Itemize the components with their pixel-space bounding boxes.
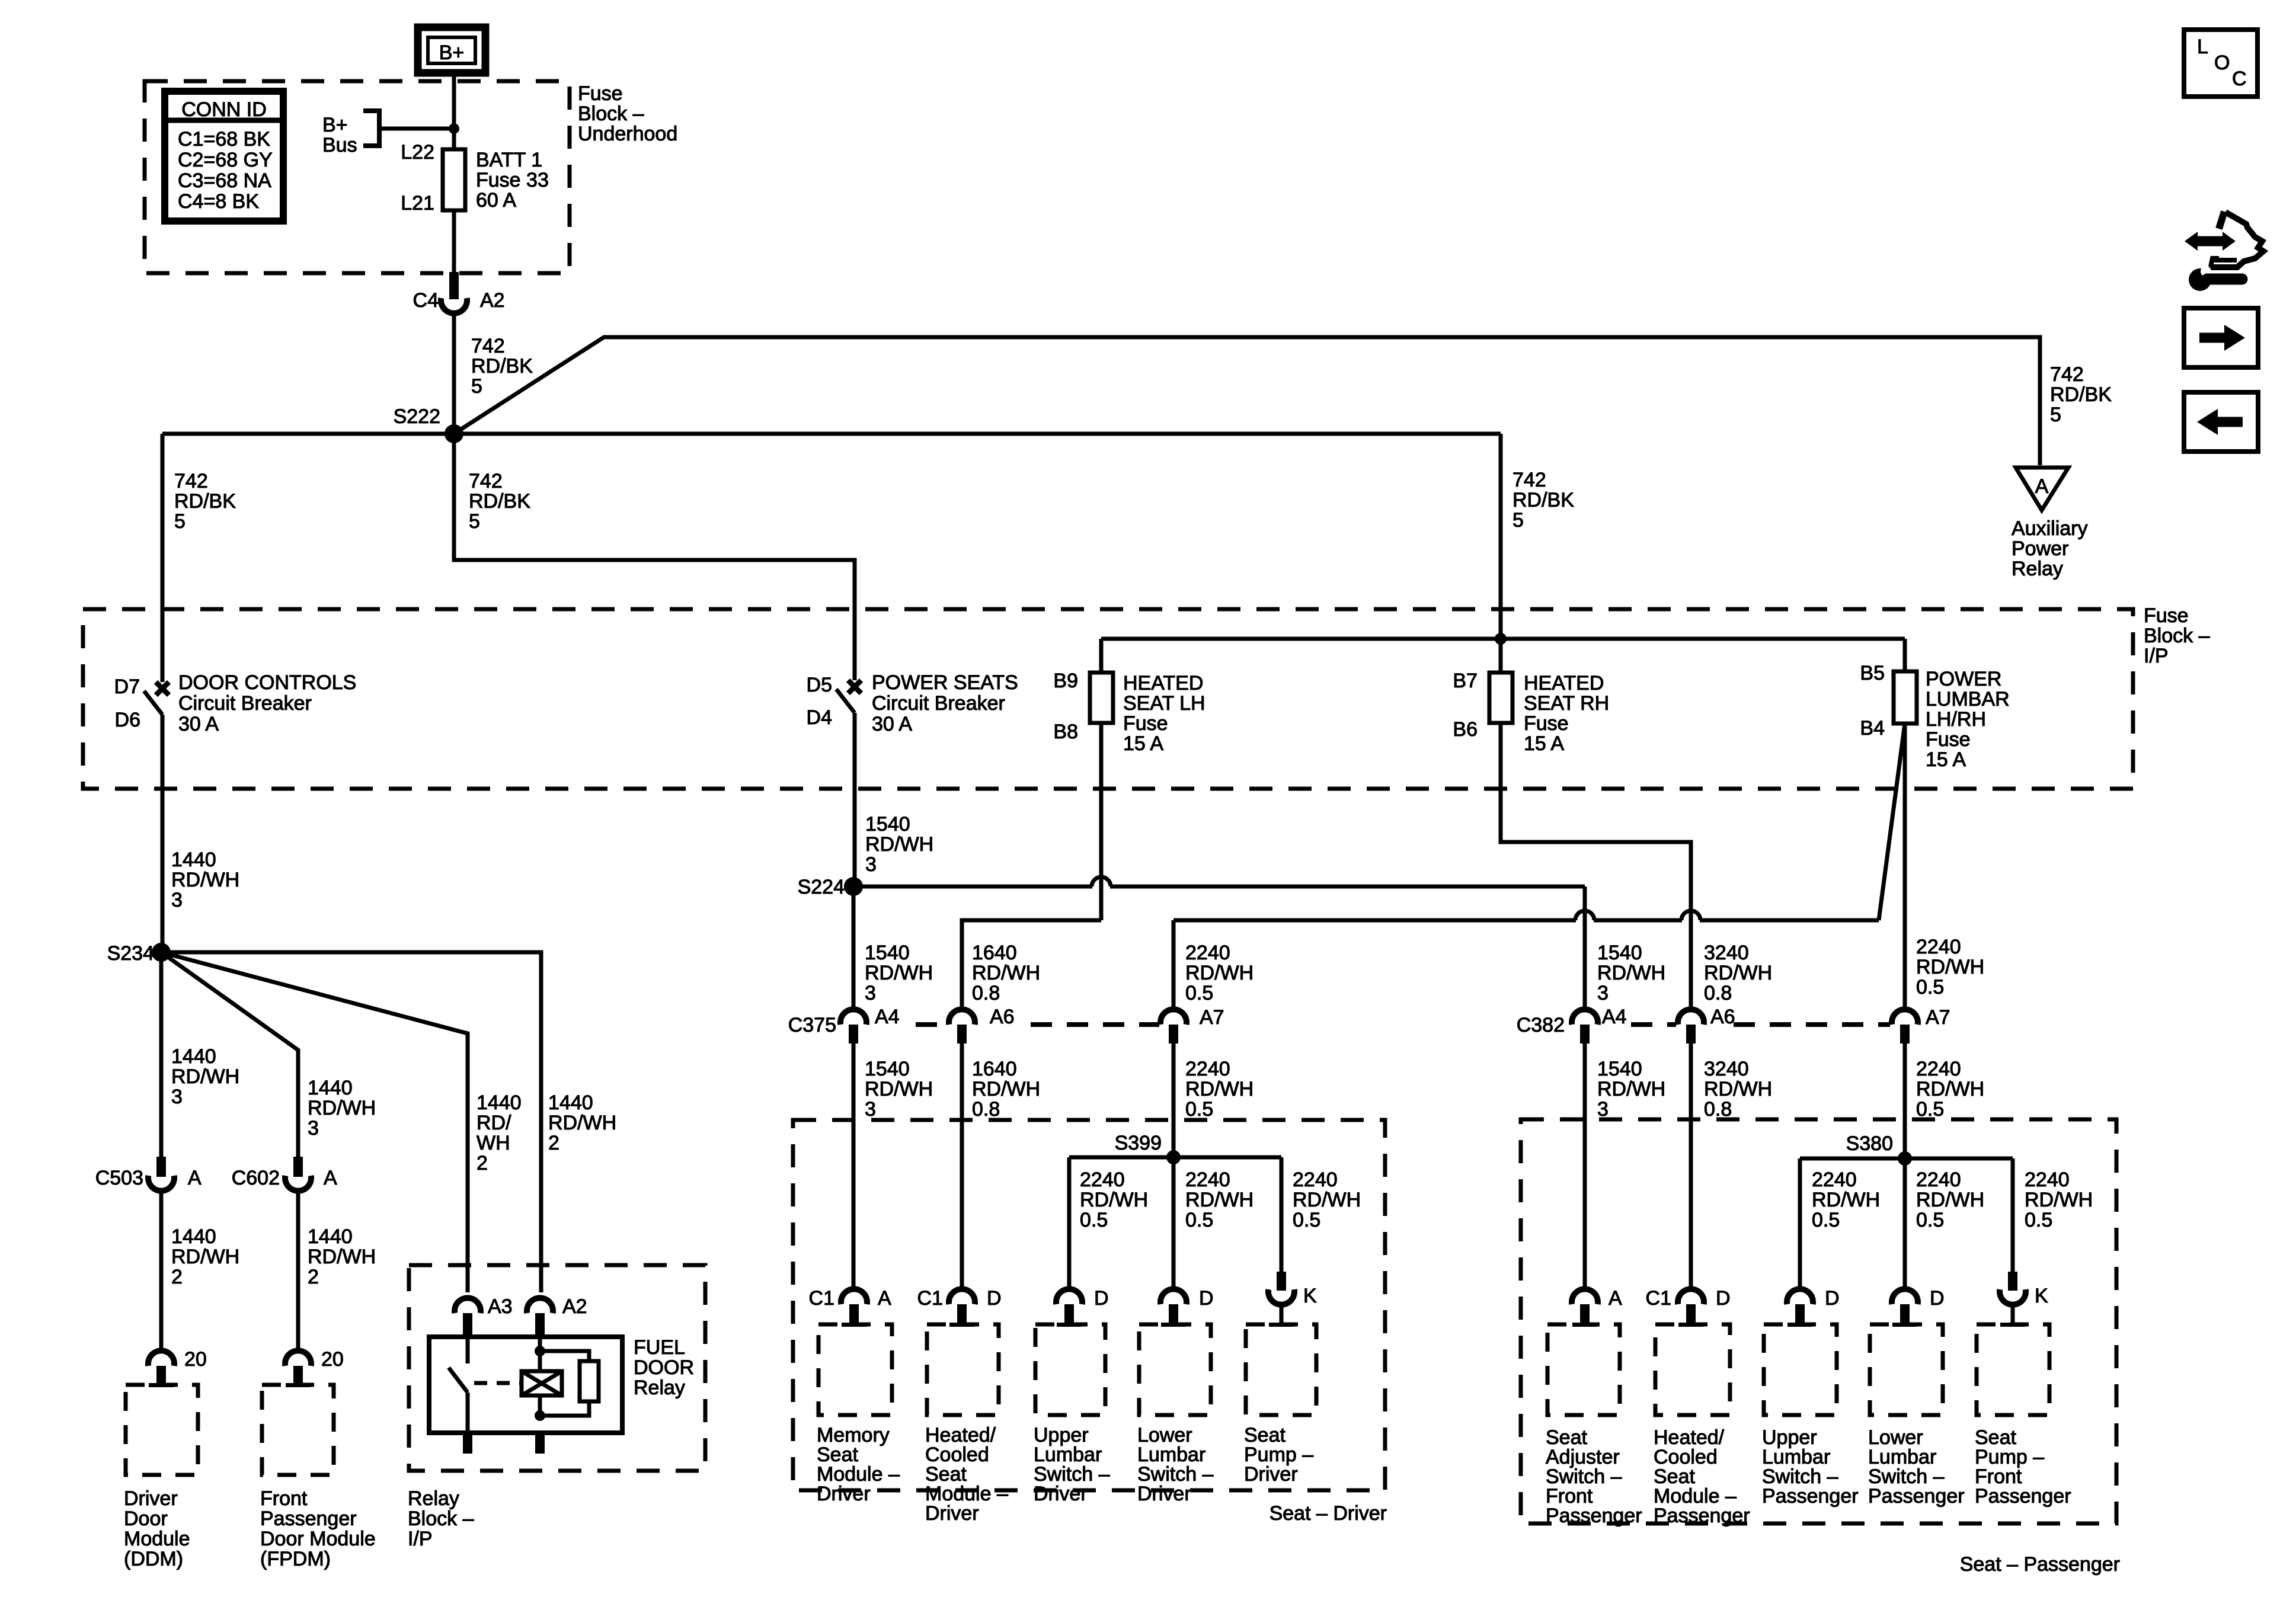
wire S380 horizontal — [1800, 1157, 2013, 1161]
svg-text:0.5: 0.5 — [1293, 1209, 1320, 1231]
svg-text:15 A: 15 A — [1123, 732, 1163, 755]
svg-text:1640: 1640 — [972, 942, 1017, 964]
svg-text:C: C — [2232, 68, 2247, 90]
IP internal bus wire — [1101, 637, 1905, 641]
svg-text:Passenger: Passenger — [1762, 1485, 1859, 1507]
connector C375 pin A7 — [1160, 1006, 1224, 1044]
svg-text:C1=68 BK: C1=68 BK — [178, 128, 270, 151]
svg-text:B5: B5 — [1860, 662, 1885, 684]
svg-text:RD/WH: RD/WH — [308, 1246, 376, 1268]
wire S234 to C602 — [161, 952, 298, 1158]
connector K seat pump passenger — [2000, 1272, 2048, 1326]
wire S234 to relay A3 — [161, 952, 468, 1292]
svg-text:B7: B7 — [1453, 670, 1478, 692]
svg-text:HEATED: HEATED — [1123, 672, 1203, 694]
svg-text:D: D — [987, 1287, 1002, 1310]
module seat pump passenger — [1975, 1323, 2071, 1507]
svg-text:L22: L22 — [401, 141, 434, 164]
svg-text:Driver: Driver — [1244, 1463, 1298, 1486]
svg-text:Passenger: Passenger — [1654, 1505, 1750, 1527]
svg-text:0.5: 0.5 — [1916, 1098, 1944, 1121]
svg-text:2240: 2240 — [1916, 1169, 1961, 1191]
wire S222 to auxiliary power relay — [454, 337, 2040, 465]
svg-text:20: 20 — [184, 1348, 207, 1371]
svg-text:RD/WH: RD/WH — [171, 1246, 239, 1268]
svg-text:2240: 2240 — [1185, 942, 1230, 964]
wire C375 A7 to S399 — [1172, 1044, 1176, 1157]
wire S399 to upper lumbar switch — [1067, 1157, 1072, 1292]
wire C602 to FPDM — [296, 1190, 300, 1353]
svg-text:Fuse: Fuse — [1926, 728, 1971, 751]
wire C375 A6 to heated seat module — [960, 1044, 964, 1292]
svg-text:D: D — [1094, 1287, 1109, 1310]
svg-text:3: 3 — [865, 982, 876, 1004]
svg-text:Block –: Block – — [2144, 625, 2210, 647]
svg-text:RD/WH: RD/WH — [1185, 1189, 1253, 1211]
svg-text:RD/BK: RD/BK — [1512, 489, 1574, 511]
svg-text:0.5: 0.5 — [1185, 982, 1213, 1004]
svg-text:1440: 1440 — [308, 1077, 353, 1099]
connector C375 pin A6 — [949, 1006, 1015, 1044]
connector C382 pin A4 — [1572, 1006, 1627, 1044]
wire label 2240 RD/WH 0.5 seat pump — [1293, 1169, 1361, 1231]
wire label 2240 RD/WH 0.5 upper passenger — [1916, 936, 1984, 998]
svg-text:D: D — [1825, 1287, 1840, 1310]
svg-text:15 A: 15 A — [1524, 732, 1564, 755]
wire S380 to upper lumbar passenger — [1798, 1158, 1802, 1292]
wire S399 horizontal — [1069, 1156, 1281, 1160]
connector C382 pin A6 — [1678, 1006, 1735, 1044]
module heated cooled seat passenger — [1654, 1323, 1750, 1527]
svg-text:3: 3 — [1597, 982, 1609, 1004]
wire S234 to C503 — [159, 952, 164, 1158]
relay actuator dashed link — [474, 1381, 520, 1385]
svg-text:RD/WH: RD/WH — [1812, 1189, 1880, 1211]
svg-text:2: 2 — [548, 1132, 559, 1154]
wire fuse to connector C4 — [452, 210, 456, 274]
wire label 2240 RD/WH 0.5 seat pump passenger — [2025, 1169, 2093, 1231]
svg-text:3: 3 — [865, 1098, 876, 1121]
relay block IP enclosure — [409, 1265, 705, 1471]
relay switch — [449, 1334, 468, 1393]
module upper lumbar switch passenger — [1762, 1323, 1859, 1507]
svg-text:K: K — [2035, 1285, 2048, 1307]
connector DDM pin 20 — [148, 1348, 207, 1385]
svg-text:C375: C375 — [788, 1014, 836, 1036]
svg-text:D7: D7 — [114, 676, 140, 698]
svg-text:30 A: 30 A — [178, 713, 219, 735]
wire C382 A7 to S380 — [1903, 1044, 1907, 1158]
wire S222 left branch to door controls breaker — [161, 434, 165, 682]
svg-text:0.8: 0.8 — [1704, 1098, 1732, 1121]
svg-text:RD/WH: RD/WH — [1916, 956, 1984, 978]
wire label 1440 RD/WH 3 breaker — [171, 849, 239, 911]
svg-text:3: 3 — [171, 889, 183, 911]
svg-text:Passenger: Passenger — [1546, 1505, 1642, 1527]
connector C382 pin A7 — [1892, 1006, 1950, 1044]
svg-text:I/P: I/P — [408, 1528, 433, 1550]
svg-text:DOOR CONTROLS: DOOR CONTROLS — [178, 671, 356, 694]
wire S380 to lower lumbar passenger — [1903, 1158, 1907, 1292]
svg-text:D: D — [1199, 1287, 1214, 1310]
svg-text:D6: D6 — [115, 709, 140, 731]
svg-text:1540: 1540 — [865, 813, 910, 836]
svg-text:(DDM): (DDM) — [124, 1548, 183, 1570]
svg-text:1540: 1540 — [865, 942, 910, 964]
svg-text:1440: 1440 — [548, 1092, 593, 1114]
svg-text:Circuit Breaker: Circuit Breaker — [872, 692, 1005, 715]
wire label 3240 RD/WH 0.8 upper — [1704, 942, 1772, 1004]
connector D upper lumbar passenger — [1787, 1287, 1840, 1324]
svg-text:1540: 1540 — [865, 1058, 910, 1080]
svg-text:DOOR: DOOR — [634, 1356, 694, 1379]
wire S222 right branch to IP fuse block — [1499, 434, 1503, 636]
svg-text:Driver: Driver — [124, 1487, 178, 1510]
svg-text:B9: B9 — [1053, 670, 1078, 692]
svg-text:Front: Front — [260, 1487, 308, 1510]
svg-text:5: 5 — [2050, 404, 2061, 426]
svg-text:1440: 1440 — [171, 1045, 216, 1068]
svg-text:S224: S224 — [798, 876, 845, 898]
svg-text:3: 3 — [865, 853, 877, 876]
svg-text:2240: 2240 — [1916, 936, 1961, 958]
svg-text:I/P: I/P — [2144, 645, 2169, 667]
wire 1440 RD/WH breaker to S234 — [161, 715, 165, 952]
wire label 742 RD/BK 5 aux — [2050, 363, 2112, 426]
fuse BATT 1 Fuse 33 60 A — [443, 149, 549, 212]
svg-text:2240: 2240 — [1293, 1169, 1338, 1191]
svg-text:RD/WH: RD/WH — [865, 962, 933, 984]
svg-text:RD/BK: RD/BK — [469, 490, 530, 513]
splice S380 — [1846, 1132, 1912, 1166]
svg-text:3240: 3240 — [1704, 1058, 1749, 1080]
svg-text:D: D — [1930, 1287, 1945, 1310]
svg-text:3: 3 — [1597, 1098, 1609, 1121]
svg-text:A3: A3 — [488, 1295, 513, 1318]
svg-text:RD/WH: RD/WH — [1597, 1078, 1665, 1100]
wire label 742 RD/BK 5 — [471, 335, 533, 398]
svg-text:5: 5 — [174, 510, 186, 533]
svg-text:5: 5 — [1512, 509, 1524, 532]
connector relay A2 — [527, 1295, 587, 1334]
fuel door relay label — [634, 1336, 694, 1399]
svg-text:O: O — [2214, 52, 2230, 74]
fuse B7/B6 HEATED SEAT RH — [1453, 639, 1609, 755]
svg-text:RD/WH: RD/WH — [1293, 1189, 1361, 1211]
connector A seat adjuster — [1572, 1287, 1622, 1324]
svg-text:Relay: Relay — [408, 1487, 459, 1510]
svg-text:Fuse: Fuse — [1524, 712, 1569, 735]
svg-text:Passenger: Passenger — [260, 1507, 357, 1530]
svg-text:LH/RH: LH/RH — [1926, 708, 1986, 731]
connector relay A3 — [455, 1295, 513, 1334]
svg-text:1640: 1640 — [972, 1058, 1017, 1080]
svg-text:RD/: RD/ — [477, 1112, 511, 1134]
wire power lumbar feed — [1173, 911, 1879, 920]
svg-text:A4: A4 — [1602, 1006, 1627, 1028]
svg-text:Fuse: Fuse — [2144, 604, 2189, 627]
svg-text:Driver: Driver — [817, 1483, 871, 1505]
wire S224 to C375 A4 — [852, 886, 856, 1010]
wire 1540 RD/WH breaker D4 to S224 — [853, 713, 857, 886]
svg-text:742: 742 — [174, 470, 208, 492]
connector C1 D heated seat — [917, 1287, 1002, 1324]
svg-text:RD/WH: RD/WH — [171, 1065, 239, 1088]
wire S222 middle branch to power seats breaker — [454, 434, 855, 680]
vehicle service icon — [2185, 212, 2263, 291]
svg-text:RD/WH: RD/WH — [1597, 962, 1665, 984]
svg-text:RD/WH: RD/WH — [1080, 1189, 1148, 1211]
svg-text:POWER: POWER — [1926, 668, 2001, 690]
svg-text:RD/WH: RD/WH — [1704, 962, 1772, 984]
connector C375 line — [788, 1014, 1159, 1036]
wire label 742 RD/BK 5 mid — [469, 470, 530, 533]
connector C602 A — [232, 1157, 337, 1191]
wire label 2240 RD/WH 0.5 lower driver — [1185, 1058, 1253, 1121]
svg-text:C503: C503 — [95, 1167, 143, 1189]
svg-text:15 A: 15 A — [1926, 748, 1966, 771]
junction relay coil bottom — [535, 1410, 545, 1421]
svg-text:2: 2 — [171, 1266, 183, 1288]
svg-text:B+: B+ — [322, 114, 348, 136]
svg-text:FUEL: FUEL — [634, 1336, 685, 1359]
svg-text:RD/WH: RD/WH — [1185, 962, 1253, 984]
svg-text:S380: S380 — [1846, 1132, 1893, 1155]
wire label 1440 RD/WH 3 C503 — [171, 1045, 239, 1108]
B+ bus tap — [322, 111, 379, 156]
svg-text:RD/WH: RD/WH — [865, 833, 933, 856]
svg-text:Door: Door — [124, 1507, 168, 1530]
module FPDM — [260, 1383, 376, 1570]
svg-text:5: 5 — [469, 510, 480, 533]
svg-text:Driver: Driver — [1137, 1483, 1191, 1505]
wire label 1540 RD/WH 3 lower passenger — [1597, 1058, 1665, 1121]
svg-text:B+: B+ — [439, 41, 465, 64]
svg-text:B6: B6 — [1453, 718, 1478, 741]
wire S224 horizontal — [853, 877, 1585, 886]
splice S234 — [107, 942, 171, 965]
svg-text:A: A — [878, 1287, 891, 1310]
module upper lumbar switch driver — [1034, 1323, 1110, 1505]
wire label 742 RD/BK 5 left — [174, 470, 236, 533]
relay pin below switch — [463, 1433, 472, 1454]
svg-text:0.5: 0.5 — [1185, 1098, 1213, 1121]
svg-text:D5: D5 — [807, 674, 832, 696]
svg-text:RD/WH: RD/WH — [972, 1078, 1040, 1100]
junction IP bus — [1495, 633, 1507, 645]
auxiliary power relay triangle A — [2012, 468, 2087, 580]
svg-text:Passenger: Passenger — [1975, 1485, 2071, 1507]
svg-text:RD/WH: RD/WH — [2025, 1189, 2093, 1211]
svg-text:HEATED: HEATED — [1524, 672, 1604, 694]
svg-text:RD/WH: RD/WH — [1916, 1078, 1984, 1100]
svg-text:2240: 2240 — [1185, 1169, 1230, 1191]
svg-text:Passenger: Passenger — [1868, 1485, 1965, 1507]
svg-text:RD/BK: RD/BK — [174, 490, 236, 513]
svg-text:30 A: 30 A — [872, 713, 912, 735]
seat passenger caption — [1960, 1553, 2120, 1576]
svg-text:WH: WH — [477, 1132, 510, 1154]
svg-text:2: 2 — [477, 1152, 488, 1174]
module lower lumbar switch passenger — [1868, 1323, 1965, 1507]
svg-text:2240: 2240 — [2025, 1169, 2070, 1191]
wire S399 to lower lumbar switch — [1172, 1157, 1176, 1292]
svg-text:LUMBAR: LUMBAR — [1926, 688, 2010, 710]
relay block IP label — [408, 1487, 474, 1550]
svg-text:K: K — [1303, 1285, 1317, 1307]
svg-text:B4: B4 — [1860, 717, 1885, 740]
svg-text:1440: 1440 — [171, 849, 216, 871]
power feed B+ symbol — [418, 27, 485, 73]
connector D lower lumbar passenger — [1892, 1287, 1945, 1324]
svg-text:RD/BK: RD/BK — [2050, 383, 2112, 406]
svg-text:20: 20 — [321, 1348, 344, 1371]
wire label 1440 RD/WH 2 A3 — [477, 1092, 522, 1174]
splice S224 — [798, 876, 863, 898]
svg-text:SEAT RH: SEAT RH — [1524, 692, 1609, 715]
svg-text:Seat – Passenger: Seat – Passenger — [1960, 1553, 2120, 1576]
svg-text:C1: C1 — [917, 1287, 943, 1310]
svg-text:A2: A2 — [480, 289, 505, 312]
svg-text:3240: 3240 — [1704, 942, 1749, 964]
circuit breaker D5/D4 POWER SEATS — [807, 671, 1018, 735]
svg-text:L: L — [2197, 36, 2208, 58]
wire label 1540 RD/WH 3 upper passenger — [1597, 942, 1665, 1004]
svg-text:C4=8 BK: C4=8 BK — [178, 190, 259, 213]
fuse B5/B4 POWER LUMBAR LH/RH — [1860, 639, 2009, 771]
svg-text:S399: S399 — [1115, 1132, 1162, 1154]
svg-text:Fuse: Fuse — [1123, 712, 1168, 735]
svg-text:Bus: Bus — [322, 134, 357, 156]
svg-text:1540: 1540 — [1597, 942, 1642, 964]
svg-text:C3=68 NA: C3=68 NA — [178, 169, 271, 192]
LOC legend box — [2184, 30, 2257, 97]
svg-text:S234: S234 — [107, 942, 154, 965]
wire C382 A4 to seat adjuster switch — [1583, 1044, 1587, 1292]
module heated cooled seat driver — [925, 1323, 1008, 1525]
svg-text:A6: A6 — [1710, 1006, 1735, 1028]
svg-text:RD/WH: RD/WH — [308, 1097, 376, 1119]
module seat adjuster switch passenger — [1546, 1323, 1642, 1527]
wire B+ bus to fuse wire — [379, 127, 454, 131]
connector C1 A memory seat — [809, 1287, 891, 1324]
svg-text:Circuit Breaker: Circuit Breaker — [178, 692, 312, 715]
svg-text:0.5: 0.5 — [1916, 976, 1944, 998]
svg-text:742: 742 — [2050, 363, 2084, 386]
wire 742 RD/BK C4 to S222 — [452, 312, 456, 434]
svg-text:RD/BK: RD/BK — [471, 355, 533, 377]
wire C503 to DDM — [159, 1190, 164, 1353]
relay switch wire to pin — [466, 1393, 470, 1433]
svg-text:Block –: Block – — [578, 103, 644, 125]
fuse block IP label — [2144, 604, 2210, 667]
wire label 742 RD/BK 5 right — [1512, 469, 1574, 532]
svg-text:2240: 2240 — [1185, 1058, 1230, 1080]
svg-text:Driver: Driver — [925, 1502, 979, 1525]
fuse block underhood enclosure — [145, 81, 570, 273]
svg-text:RD/WH: RD/WH — [548, 1112, 616, 1134]
svg-text:C1: C1 — [809, 1287, 834, 1310]
wire label 1440 RD/WH 3 C602 — [308, 1077, 376, 1140]
wire B+ to fuse BATT 1 — [452, 73, 456, 152]
module lower lumbar switch driver — [1137, 1323, 1214, 1505]
svg-text:2: 2 — [308, 1266, 319, 1288]
junction B+ bus — [449, 123, 459, 134]
svg-text:60 A: 60 A — [476, 189, 516, 212]
svg-text:1440: 1440 — [171, 1225, 216, 1248]
svg-text:C2=68 GY: C2=68 GY — [178, 149, 273, 171]
seat driver enclosure — [793, 1120, 1385, 1490]
connector C375 pin A4 — [840, 1006, 900, 1044]
wire label 1440 RD/WH 2 DDM — [171, 1225, 239, 1288]
svg-text:0.8: 0.8 — [972, 982, 1000, 1004]
svg-text:1440: 1440 — [308, 1225, 353, 1248]
seat driver caption — [1269, 1502, 1387, 1525]
svg-text:C1: C1 — [1646, 1287, 1671, 1310]
wire S399 to seat pump — [1280, 1157, 1284, 1273]
wire label 1540 RD/WH 3 breaker — [865, 813, 933, 876]
wire lumbar riser to C375 A7 — [1172, 920, 1176, 1010]
back arrow box — [2184, 392, 2258, 452]
wire B6 3240 RD/WH to C382 A6 — [1501, 723, 1691, 1010]
svg-text:0.8: 0.8 — [972, 1098, 1000, 1121]
svg-text:2240: 2240 — [1812, 1169, 1857, 1191]
svg-text:Fuse: Fuse — [578, 82, 623, 105]
svg-text:RD/WH: RD/WH — [1185, 1078, 1253, 1100]
svg-text:Auxiliary: Auxiliary — [2012, 517, 2087, 540]
svg-text:742: 742 — [1512, 469, 1546, 491]
wire label 2240 RD/WH 0.5 lower passenger — [1916, 1058, 1984, 1121]
svg-text:C602: C602 — [232, 1167, 280, 1189]
svg-text:C382: C382 — [1517, 1014, 1565, 1036]
svg-text:C4: C4 — [413, 289, 439, 312]
svg-text:742: 742 — [469, 470, 503, 492]
circuit breaker D7/D6 DOOR CONTROLS — [114, 671, 357, 735]
wire label 2240 RD/WH 0.5 lower lumbar passenger — [1916, 1169, 1984, 1231]
connector FPDM pin 20 — [285, 1348, 344, 1385]
svg-text:0.5: 0.5 — [2025, 1209, 2052, 1231]
connector D lower lumbar driver — [1160, 1287, 1214, 1324]
relay coil crossed box — [522, 1371, 562, 1395]
svg-text:A6: A6 — [990, 1006, 1015, 1028]
svg-text:3: 3 — [171, 1086, 183, 1108]
wire label 2240 RD/WH 0.5 upper lumbar passenger — [1812, 1169, 1880, 1231]
svg-text:D: D — [1716, 1287, 1731, 1310]
svg-text:A2: A2 — [562, 1295, 587, 1318]
module DDM — [124, 1383, 198, 1570]
seat passenger enclosure — [1521, 1119, 2116, 1523]
svg-text:A4: A4 — [875, 1006, 900, 1028]
svg-text:Relay: Relay — [2012, 558, 2063, 580]
wire B4 to C382 A7 — [1903, 724, 1907, 1010]
svg-text:L21: L21 — [401, 192, 434, 215]
wire label 3240 RD/WH 0.8 lower — [1704, 1058, 1772, 1121]
svg-text:Door Module: Door Module — [260, 1528, 376, 1550]
fuse block IP enclosure — [83, 609, 2133, 789]
wire label 1540 RD/WH 3 upper — [865, 942, 933, 1004]
relay resistor branch wire — [540, 1351, 589, 1416]
wire C382 A6 to heated seat module passenger — [1689, 1044, 1693, 1292]
wire B8 1640 RD/WH to C375 A6 — [962, 723, 1101, 1010]
svg-text:A: A — [2035, 475, 2049, 498]
connector K seat pump driver — [1268, 1272, 1317, 1326]
fuel door relay box — [429, 1337, 622, 1433]
wire label 2240 RD/WH 0.5 upper driver — [1185, 942, 1253, 1004]
svg-text:1540: 1540 — [1597, 1058, 1642, 1080]
svg-text:5: 5 — [471, 375, 482, 398]
relay coil feed wire — [538, 1334, 542, 1416]
svg-text:RD/WH: RD/WH — [972, 962, 1040, 984]
